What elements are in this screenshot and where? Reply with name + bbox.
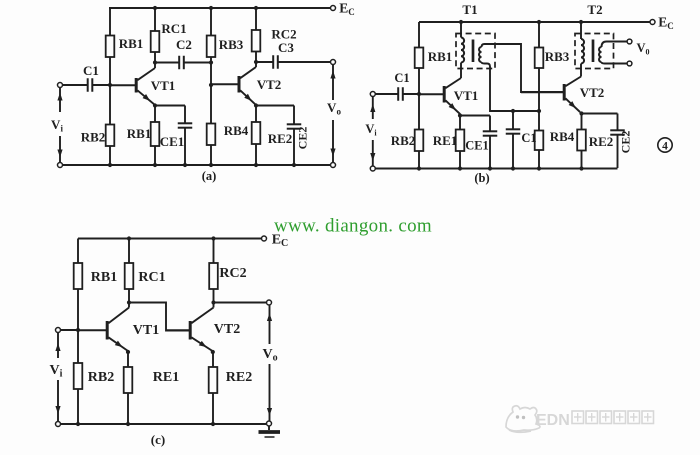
transistor VT2 (b): [521, 91, 564, 93]
resistor RB1 (b): [418, 22, 420, 48]
terminal input bottom (b): [370, 166, 375, 171]
capacitor C1 input (b): [375, 93, 398, 95]
node: C1 bypass junction (b): [511, 109, 515, 113]
node: VT2 base tap (a): [209, 83, 213, 87]
resistor RB1 (c): [77, 239, 79, 264]
node: VT1 emitter (a): [153, 103, 157, 107]
resistor RB2 (a): [109, 85, 111, 125]
wire emitter to CE1 (b): [460, 115, 490, 117]
svg-text:C3: C3: [278, 40, 294, 55]
wire T1 secondary bottom to divider node: [482, 62, 540, 111]
transistor VT2 (a): [211, 83, 239, 85]
circuit (b) top supply rail wire: [419, 21, 650, 23]
resistor RE2 (b): [581, 114, 583, 130]
node: rail-RC2 (c): [211, 236, 215, 240]
wire emitter to CE2 (a): [256, 105, 294, 107]
svg-text:(b): (b): [474, 171, 489, 185]
node: rail-RB2 (c): [76, 422, 80, 426]
svg-text:RB2: RB2: [391, 133, 416, 148]
node: VT2 emitter (a): [254, 103, 258, 107]
wire T2 secondary bottom to output: [602, 62, 628, 64]
node: rail-RB2 (b): [417, 166, 421, 170]
node: rail-RC1 junction (a): [153, 6, 157, 10]
terminal input bottom (a): [58, 163, 63, 168]
svg-text:RE1: RE1: [153, 370, 179, 385]
wire VT1 collector up (c): [128, 303, 130, 308]
transformer T2 primary bottom lead to VT2 collector: [580, 64, 582, 77]
svg-text:C2: C2: [176, 37, 192, 52]
svg-text:RB1: RB1: [119, 36, 144, 51]
transformer T1 secondary coil: [479, 47, 482, 62]
svg-text:C1: C1: [394, 71, 409, 85]
svg-text:T1: T1: [462, 2, 477, 17]
svg-text:VT1: VT1: [151, 78, 176, 93]
node: VT2 emitter (c): [211, 350, 215, 354]
capacitor C3 (a): [256, 61, 273, 63]
capacitor C2 (a): [155, 62, 179, 64]
node: input/divider junction (a): [108, 83, 112, 87]
node: rail-RE1 (c): [126, 422, 130, 426]
circuit (b) bottom ground rail wire: [375, 168, 617, 170]
node: rail-CE1 (b): [488, 166, 492, 170]
node: rail-T1 (b): [459, 20, 463, 24]
circuit (c) top supply rail wire: [78, 238, 262, 240]
capacitor CE2 (b): [617, 114, 619, 131]
capacitor CE2 (a): [293, 106, 295, 125]
svg-text:RE2: RE2: [268, 131, 293, 146]
wire VT2 collector to RC2 (a): [255, 62, 257, 67]
resistor RB1 (a): [109, 8, 111, 36]
svg-text:RB2: RB2: [88, 370, 114, 385]
svg-text:RB4: RB4: [224, 123, 249, 138]
svg-text:VT1: VT1: [133, 323, 159, 338]
resistor RB3 (b): [538, 22, 540, 48]
label CE2 (a) rotated: [296, 127, 310, 150]
terminal input top (a): [58, 83, 63, 88]
node: rail-C1 (b): [511, 166, 515, 170]
transistor VT2 (c): [166, 329, 190, 331]
circuit (a) top supply rail wire: [109, 7, 331, 9]
svg-text:RE2: RE2: [226, 370, 252, 385]
svg-text:RE1: RE1: [433, 133, 458, 148]
transformer T2 core: [592, 40, 595, 63]
node: rail-RB2 (a): [108, 163, 112, 167]
transformer T1 primary bottom lead to VT1 collector: [460, 63, 462, 79]
transformer T2 primary lead: [580, 22, 582, 39]
node: C2-RB3 junction (a): [209, 60, 213, 64]
capacitor CE1 (b): [489, 116, 491, 132]
resistor RE1 (a) [drawn as RB1]: [154, 106, 156, 123]
node: rail-RB3 junction (a): [209, 6, 213, 10]
node: rail-CE1 (a): [183, 163, 187, 167]
wire emitter to CE1 (a): [155, 105, 185, 107]
node: rail-RB3 (b): [537, 20, 541, 24]
circuit (c) bottom ground rail wire: [61, 423, 267, 425]
svg-text:RB1: RB1: [91, 270, 117, 285]
transformer T2 primary coil: [581, 39, 584, 64]
resistor RC1 (c): [128, 239, 130, 264]
wire T1 secondary top to VT2 base: [482, 44, 564, 92]
terminal output bottom (b): [627, 61, 632, 66]
node: VT1 emitter (b): [458, 113, 462, 117]
resistor RB4 (a): [210, 85, 212, 124]
svg-text:VT2: VT2: [580, 85, 605, 100]
svg-text:(a): (a): [202, 169, 217, 183]
wire T2 secondary top to output: [602, 42, 628, 48]
capacitor C1 (a): [63, 84, 88, 86]
node: rail-RE1 (b): [458, 166, 462, 170]
terminal EC (a): [331, 6, 336, 11]
figure number 4 circle: [658, 138, 672, 152]
node: input/divider junction (c): [76, 328, 80, 332]
node: rail-RE1 (a): [153, 163, 157, 167]
transistor VT1 (c): [78, 329, 107, 331]
svg-text:RC1: RC1: [161, 21, 186, 36]
terminal output bottom (a): [331, 163, 336, 168]
terminal EC (b): [650, 20, 655, 25]
terminal output bottom (c): [267, 421, 272, 426]
source line Vi (b): [372, 97, 374, 120]
svg-text:RB1: RB1: [127, 126, 152, 141]
node: rail-T2 (b): [579, 20, 583, 24]
capacitor C1 bypass (b): [512, 111, 514, 129]
terminal output top (b): [627, 39, 632, 44]
node: rail-RC1 (c): [127, 236, 131, 240]
node: rail-RB4 (b): [537, 166, 541, 170]
node: rail-CE2 (a): [292, 163, 296, 167]
svg-text:www. diangon. com: www. diangon. com: [274, 216, 432, 237]
svg-text:C1: C1: [521, 131, 536, 145]
circuit (a) bottom ground rail wire: [63, 164, 331, 166]
resistor RB3 (a): [210, 8, 212, 36]
label CE2 (b) rotated: [619, 131, 633, 154]
svg-text:(c): (c): [151, 432, 165, 447]
node: rail-RE2 (b): [579, 166, 583, 170]
svg-text:VT2: VT2: [214, 322, 240, 337]
resistor RC1 (a): [154, 8, 156, 31]
resistor RB4 (b): [538, 111, 540, 131]
svg-text:CE1: CE1: [160, 134, 185, 149]
terminal input top (b): [370, 92, 375, 97]
node: rail-RC2 junction (a): [254, 6, 258, 10]
svg-text:C1: C1: [83, 63, 99, 78]
EDN logo icon: [506, 406, 540, 432]
svg-text:4: 4: [662, 141, 668, 153]
transistor VT1 (a): [110, 84, 136, 86]
svg-text:RE2: RE2: [589, 134, 614, 149]
transformer T1 primary lead: [460, 22, 462, 38]
node: rail-RE2 (c): [211, 422, 215, 426]
EDN logo CJK text (approximated): [572, 411, 654, 424]
svg-text:CE2: CE2: [619, 131, 633, 154]
resistor RE2 (a): [255, 106, 257, 123]
resistor RC2 (c): [213, 239, 215, 264]
transformer T2 secondary coil: [599, 47, 602, 62]
svg-text:RB3: RB3: [219, 37, 244, 52]
transistor VT1 (b): [419, 93, 444, 95]
resistor RE1 (c): [127, 352, 129, 367]
terminal input top (c): [56, 328, 61, 333]
output line Vo (a): [332, 65, 334, 101]
wire input to base (c): [61, 329, 79, 331]
wire emitter to CE2 (b): [582, 113, 618, 115]
transformer T2 dashed core box: [575, 34, 614, 69]
svg-text:CE1: CE1: [465, 139, 489, 153]
resistor RE1 (b): [459, 116, 461, 130]
svg-text:T2: T2: [587, 2, 602, 17]
wire VT2 collector to output (c): [214, 302, 267, 304]
node: VT1 collector (a): [153, 60, 157, 64]
resistor RB2 (b): [418, 94, 420, 130]
node: rail-RE2 (a): [254, 163, 258, 167]
svg-text:RB3: RB3: [545, 49, 570, 64]
capacitor CE1 (a): [184, 106, 186, 124]
node: VT2 collector (a): [254, 60, 258, 64]
svg-text:VT1: VT1: [454, 88, 479, 103]
node: rail-RB4 (a): [209, 163, 213, 167]
svg-text:RB4: RB4: [550, 129, 575, 144]
wire VT1 collector to RC1 (a): [154, 62, 156, 68]
ground symbol (c): [268, 426, 270, 430]
resistor RB2 (c): [77, 330, 79, 363]
terminal output top (a): [331, 60, 336, 65]
node: VT1 emitter (c): [126, 350, 130, 354]
transformer T1 dashed core box: [456, 34, 495, 69]
resistor RC2 (a): [255, 8, 257, 30]
node: input/divider junction (b): [417, 92, 421, 96]
node: RB3-RB4 divider junction (b): [537, 109, 541, 113]
svg-text:RB2: RB2: [81, 130, 106, 145]
terminal input bottom (c): [56, 422, 61, 427]
terminal output top (c): [267, 300, 272, 305]
source line Vi (a): [59, 88, 61, 113]
terminal EC (c): [262, 236, 267, 241]
transformer T1 primary coil: [461, 38, 464, 63]
svg-text:RC1: RC1: [138, 270, 165, 285]
wire VT2 collector up (c): [213, 303, 215, 308]
node: VT2 collector (c): [211, 300, 215, 304]
wire RB3 to base node (a): [210, 63, 212, 86]
source line Vi (c): [57, 333, 59, 359]
svg-text:EDN: EDN: [536, 412, 570, 429]
output line Vo (c): [269, 305, 271, 344]
node: VT1 collector (c): [127, 300, 131, 304]
wire RB3 to divider node crossing base wire (b): [538, 92, 540, 111]
svg-text:RB1: RB1: [428, 49, 453, 64]
resistor RE2 (c): [212, 352, 214, 367]
wire VT1 collector to VT2 base (c): [129, 303, 189, 331]
svg-text:RC2: RC2: [219, 266, 246, 281]
transformer T1 core: [472, 40, 475, 63]
node: VT2 emitter (b): [579, 111, 583, 115]
svg-text:CE2: CE2: [296, 127, 310, 150]
svg-text:VT2: VT2: [257, 77, 282, 92]
